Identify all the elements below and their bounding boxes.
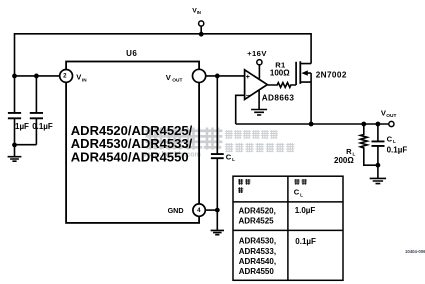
table border	[233, 176, 343, 280]
watermark line2 元器件在线商城	[225, 143, 294, 152]
opamp ground	[251, 91, 267, 116]
svg-text:GND: GND	[168, 206, 184, 215]
capacitor CLout plates	[372, 141, 385, 146]
ground input caps	[8, 145, 22, 161]
wire feedback minus input	[236, 95, 245, 124]
resistor R1	[267, 83, 296, 88]
wire gnd pin to node	[205, 209, 217, 211]
capacitor C1 1uF leads	[14, 76, 16, 145]
watermark line1 华强集团旗下	[225, 130, 278, 139]
capacitor CL bypass plates	[211, 154, 224, 158]
U6 box	[66, 62, 199, 223]
svg-text:AD8663: AD8663	[262, 93, 295, 102]
svg-text:100Ω: 100Ω	[270, 68, 290, 77]
svg-text:200Ω: 200Ω	[334, 156, 354, 165]
svg-text:ADR4540/ADR4550: ADR4540/ADR4550	[71, 149, 189, 164]
svg-text:0.1µF: 0.1µF	[32, 122, 53, 131]
op-amp U2 triangle	[245, 70, 268, 100]
svg-text:+: +	[246, 74, 250, 81]
node VIN rail junction	[199, 32, 204, 37]
table header 最低	[294, 179, 299, 185]
table divider column	[287, 176, 289, 280]
wire input node horizontal	[15, 75, 60, 77]
svg-text:10404-006: 10404-006	[405, 249, 425, 254]
svg-text:1µF: 1µF	[15, 122, 29, 131]
node gnd pin	[215, 208, 220, 213]
watermark logo 华强芯城	[146, 128, 223, 150]
ground U6	[211, 210, 224, 235]
transistor Q1 channel bar	[299, 61, 301, 84]
capacitor C2 plates	[30, 113, 43, 118]
node RL CLout bottom	[376, 163, 381, 168]
svg-text:U6: U6	[126, 49, 137, 58]
table divider row1	[233, 201, 343, 203]
output rail	[236, 123, 389, 125]
node mosfet source rail	[309, 122, 314, 127]
table	[233, 176, 343, 280]
svg-text:ADR4550: ADR4550	[239, 267, 275, 276]
transistor Q1 stubs	[300, 64, 311, 83]
ground output	[370, 165, 386, 183]
resistor RL	[360, 124, 378, 165]
svg-text:ADR4520,: ADR4520,	[239, 207, 276, 216]
terminal +16V	[257, 60, 262, 65]
svg-text:+16V: +16V	[247, 49, 267, 58]
svg-text:1.0µF: 1.0µF	[295, 206, 316, 215]
node RL rail	[361, 122, 366, 127]
wire Vout pin to opamp	[206, 75, 245, 77]
svg-text:4: 4	[197, 207, 201, 214]
terminal VOUT	[389, 121, 394, 126]
table header 数	[238, 187, 243, 193]
node input cap1	[12, 74, 17, 79]
svg-text:0.1µF: 0.1µF	[295, 237, 316, 246]
svg-text:ADR4540,: ADR4540,	[239, 257, 276, 266]
node cap gnd join	[12, 143, 17, 148]
wire CL bypass vertical	[216, 76, 218, 210]
node vout bypass	[215, 74, 220, 79]
transistor Q1 body arrow	[301, 70, 307, 75]
svg-text:0.1µF: 0.1µF	[387, 146, 408, 155]
svg-text:–: –	[246, 90, 250, 99]
capacitor C1 plates	[8, 113, 21, 118]
wire VIN terminal drop	[200, 26, 202, 34]
pin 4 circle	[193, 204, 205, 216]
svg-text:2N7002: 2N7002	[316, 71, 347, 80]
pin 2 circle	[60, 70, 73, 83]
capacitor CLout leads	[377, 124, 379, 165]
transistor Q1 gate bar	[295, 62, 297, 85]
terminal VIN top	[199, 21, 204, 26]
pin 6 circle	[193, 69, 206, 82]
capacitor C2 0.1uF leads	[15, 76, 37, 145]
svg-text:2: 2	[63, 73, 67, 80]
table divider row2	[233, 229, 343, 231]
node CLout rail	[376, 122, 381, 127]
table header 部分	[238, 179, 307, 193]
node input cap2	[34, 74, 39, 79]
opamp supply wire	[258, 65, 260, 79]
wire top rail VIN	[15, 34, 312, 76]
svg-text:ADR4533,: ADR4533,	[239, 247, 276, 256]
svg-text:ADR4525: ADR4525	[239, 216, 275, 225]
transistor Q1 source vertical	[310, 73, 312, 124]
svg-text:ADR4530,: ADR4530,	[239, 237, 276, 246]
